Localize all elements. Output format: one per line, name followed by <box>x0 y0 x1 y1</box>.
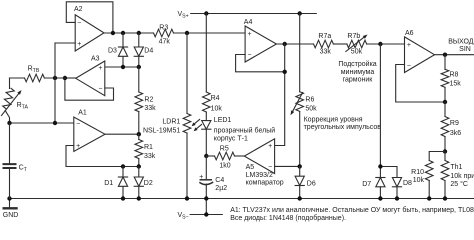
wire A2 + input stub <box>55 42 75 44</box>
wire R9 leads <box>444 102 446 152</box>
svg-text:ВЫХОД: ВЫХОД <box>448 38 474 45</box>
svg-text:47k: 47k <box>159 39 171 46</box>
svg-text:+: + <box>76 143 80 150</box>
svg-text:−: − <box>248 52 252 59</box>
svg-text:50k: 50k <box>305 105 317 112</box>
resistor R9 <box>441 117 449 137</box>
node A4 feedback junction <box>283 70 287 74</box>
svg-text:D1: D1 <box>104 180 113 187</box>
svg-text:R1: R1 <box>144 144 153 151</box>
arrow R6 wiper <box>293 93 303 112</box>
resistor R7a <box>314 40 334 48</box>
svg-text:RTA: RTA <box>17 102 29 111</box>
svg-text:25 °C: 25 °C <box>450 180 468 188</box>
wire R8 leads <box>444 55 446 102</box>
node D7/D8 top junction <box>378 164 382 168</box>
node D3 bottom / A3 + <box>121 65 125 69</box>
svg-text:50k: 50k <box>351 48 363 55</box>
wire R5 to A5 output <box>235 155 245 157</box>
node A2 output / feedback <box>111 31 115 35</box>
svg-text:3k6: 3k6 <box>450 130 461 137</box>
arrow R7b wiper <box>346 37 364 51</box>
svg-text:R3: R3 <box>159 25 168 32</box>
svg-text:−: − <box>98 86 102 93</box>
wire R5 left stub <box>206 155 214 157</box>
svg-text:+: + <box>199 174 203 181</box>
svg-text:A4: A4 <box>244 19 253 26</box>
potentiometer RTA <box>2 87 14 109</box>
svg-text:A6: A6 <box>405 30 414 37</box>
wire D2 leads <box>138 167 140 199</box>
svg-text:LED1: LED1 <box>214 117 232 124</box>
svg-text:Th1: Th1 <box>450 164 462 171</box>
wire A3 feedback loop <box>65 78 114 100</box>
svg-text:D4: D4 <box>144 48 153 55</box>
diode D6 <box>295 176 304 185</box>
svg-text:10k: 10k <box>413 177 425 184</box>
node A4 output <box>283 42 287 46</box>
node R3/LDR1 junction <box>185 31 189 35</box>
wire vertical A2+ to A1- <box>54 43 56 123</box>
node D6 bottom rail <box>298 196 302 200</box>
svg-text:D2: D2 <box>144 180 153 187</box>
svg-text:1k0: 1k0 <box>219 163 230 170</box>
svg-text:A3: A3 <box>91 56 100 63</box>
potentiometer R6 <box>296 92 304 112</box>
wire A4 output <box>276 43 313 45</box>
svg-text:D7: D7 <box>362 181 371 188</box>
node C4 bottom rail <box>204 196 208 200</box>
svg-text:компаратор: компаратор <box>246 180 284 187</box>
wire R7b to A6 + <box>367 43 405 45</box>
arrow LDR1 light ray 2 <box>197 124 202 128</box>
wire V_S- stub <box>190 199 222 215</box>
wire A3 output to RTB line <box>65 77 76 79</box>
svg-text:R5: R5 <box>220 146 229 153</box>
node D1 top <box>121 164 125 168</box>
svg-text:2µ2: 2µ2 <box>215 185 227 192</box>
arrow RTA wiper <box>2 94 19 116</box>
svg-text:R7a: R7a <box>318 33 331 40</box>
svg-text:A1: A1 <box>78 110 87 117</box>
svg-text:R9: R9 <box>450 120 459 127</box>
potentiometer R7b <box>347 40 367 48</box>
wire LDR1 leads <box>186 33 188 199</box>
photoresistor LDR1 <box>183 114 191 134</box>
wire R4 leads <box>205 14 207 121</box>
svg-text:15k: 15k <box>450 80 462 87</box>
svg-text:минимума: минимума <box>341 69 375 76</box>
wire R2 leads <box>138 67 140 134</box>
svg-text:+: + <box>407 42 411 49</box>
svg-text:−: − <box>77 20 81 27</box>
node A1- / vertical junction <box>53 121 57 125</box>
node rail/GND/CT junction <box>7 196 11 200</box>
svg-text:NSL-19M51: NSL-19M51 <box>143 127 180 134</box>
node R8 / R9 / A6 feedback <box>443 100 447 104</box>
diode D8 <box>392 178 401 187</box>
node R7b output / D7 branch <box>378 42 382 46</box>
diode D4 <box>134 47 143 56</box>
node D8 bottom rail <box>395 196 399 200</box>
node Th1 bottom rail <box>443 196 447 200</box>
svg-text:VS−: VS− <box>178 212 189 221</box>
svg-text:D3: D3 <box>108 48 117 55</box>
svg-text:корпус Т-1: корпус Т-1 <box>214 136 248 143</box>
wire LED1 lead <box>205 129 207 156</box>
svg-text:+: + <box>268 143 272 150</box>
node D3 top <box>121 31 125 35</box>
wire D1 leads <box>122 167 124 199</box>
diode D2 <box>134 177 143 186</box>
svg-text:LM393/2: LM393/2 <box>246 172 273 179</box>
svg-text:R2: R2 <box>144 96 153 103</box>
svg-text:C4: C4 <box>215 177 224 184</box>
diode D7 <box>376 177 385 179</box>
node V_S+ / R4 branch <box>204 11 208 15</box>
node D2 / R1 bottom <box>137 164 141 168</box>
ground <box>4 207 17 209</box>
wire RTA leads <box>5 78 9 123</box>
svg-text:+: + <box>77 41 81 48</box>
svg-text:A1: TLV237x или аналогичные. О: A1: TLV237x или аналогичные. Остальные О… <box>230 206 474 214</box>
svg-text:R6: R6 <box>305 96 314 103</box>
node D4 bottom / R2 top <box>137 65 141 69</box>
wire R3 to A4 + <box>174 32 246 34</box>
svg-text:33k: 33k <box>144 105 156 112</box>
wire A1 + feedback to D1/D2 line <box>66 146 139 167</box>
svg-text:гармоник: гармоник <box>343 77 374 84</box>
arrow LDR1 light ray 1 <box>195 119 200 123</box>
resistor R1 <box>135 140 143 159</box>
wire A6 output <box>435 54 474 56</box>
wire D7/D8 bottoms <box>380 187 397 199</box>
svg-text:+: + <box>98 65 102 72</box>
wire C4 leads <box>205 156 207 199</box>
node A5 - / R6 / D6 <box>298 164 302 168</box>
node A3 output <box>63 76 67 80</box>
resistor R2 <box>135 92 143 112</box>
svg-text:10k: 10k <box>211 106 223 113</box>
wire RTB line <box>10 77 65 79</box>
svg-text:Подстройка: Подстройка <box>338 60 376 68</box>
node R9 bottom / R10 / Th1 <box>443 149 447 153</box>
node D4 top <box>137 31 141 35</box>
resistor R10 <box>425 161 433 181</box>
svg-text:R4: R4 <box>211 95 220 102</box>
wire A2 output to R3 <box>104 32 154 34</box>
svg-text:RTB: RTB <box>28 66 40 75</box>
diode D3 <box>118 46 127 48</box>
op-amp A2 <box>75 15 104 51</box>
wire A1 - input line <box>10 122 74 124</box>
resistor RTB <box>25 74 45 82</box>
capacitor CT <box>4 164 16 168</box>
net V_S- rail (bottom) <box>10 198 474 200</box>
wire R1 leads <box>138 134 140 166</box>
svg-text:D6: D6 <box>307 181 316 188</box>
wire D3/D4 bottoms to A3 + (node) <box>105 66 139 68</box>
svg-text:CT: CT <box>19 164 28 173</box>
svg-text:10k при: 10k при <box>450 173 474 180</box>
node LDR1 bottom rail <box>185 196 189 200</box>
svg-text:R7b: R7b <box>347 33 360 40</box>
wire R7a to R7b <box>333 43 347 45</box>
diode D1 <box>118 176 127 178</box>
node LED1 / R5 / C4 <box>204 154 208 158</box>
net V_S+ rail <box>191 13 317 15</box>
svg-text:−: − <box>407 62 411 69</box>
svg-text:+: + <box>248 31 252 38</box>
thermistor Th1 <box>441 161 449 181</box>
svg-text:R10: R10 <box>411 169 424 176</box>
wire A2 feedback loop <box>66 2 113 33</box>
wire GND stub <box>9 199 11 208</box>
node D7 bottom rail <box>378 196 382 200</box>
svg-text:SIN: SIN <box>459 46 471 53</box>
node V_S- stub junction <box>204 212 208 216</box>
svg-text:VS+: VS+ <box>178 11 189 20</box>
svg-text:R8: R8 <box>450 71 459 78</box>
svg-text:LDR1: LDR1 <box>162 118 180 125</box>
wire R6 leads <box>299 14 301 167</box>
capacitor C4 polarized <box>200 179 211 181</box>
resistor R5 <box>215 152 235 160</box>
svg-text:−: − <box>76 121 80 128</box>
svg-text:D8: D8 <box>403 180 412 187</box>
svg-text:Все диоды: 1N4148 (подобранные: Все диоды: 1N4148 (подобранные). <box>230 214 346 222</box>
svg-text:треугольных импульсов: треугольных импульсов <box>304 124 382 131</box>
node D1 bottom rail <box>121 196 125 200</box>
node V_S+ / R6 branch <box>298 11 302 15</box>
op-amp A4 <box>245 26 276 62</box>
wire R7b node down to D7/D8 <box>380 44 397 178</box>
op-amp A6 <box>405 37 435 73</box>
svg-text:прозрачный белый: прозрачный белый <box>214 127 275 135</box>
svg-text:33k: 33k <box>144 153 156 160</box>
op-amp A5 <box>244 139 274 174</box>
wire A4 out down to A5 + <box>275 44 285 146</box>
svg-text:A5: A5 <box>246 164 255 171</box>
resistor R3 <box>154 29 174 37</box>
led LED1 <box>202 121 211 130</box>
node A1 output / R1 R2 junction <box>137 132 141 136</box>
svg-text:GND: GND <box>3 212 19 219</box>
svg-text:A2: A2 <box>74 6 83 13</box>
wire R10 branch <box>429 152 445 199</box>
wire D4 leads <box>138 33 140 67</box>
svg-text:−: − <box>268 164 272 171</box>
resistor R8 <box>441 69 449 87</box>
op-amp A1 <box>74 117 105 152</box>
svg-text:33k: 33k <box>320 48 332 55</box>
wire CT leads <box>9 123 11 199</box>
node R10 bottom rail <box>427 196 431 200</box>
wire A6 feedback loop <box>396 65 445 103</box>
resistor R4 <box>203 92 211 112</box>
node RTB / A2+ vertical <box>53 76 57 80</box>
node D2 bottom rail <box>137 196 141 200</box>
wire A5 - input <box>275 165 300 167</box>
node A6 output <box>443 53 447 57</box>
wire A1 output <box>105 133 139 135</box>
op-amp A3 <box>76 61 105 96</box>
wire D6 leads <box>299 166 301 198</box>
node CT / RTA / A1- junction <box>7 121 11 125</box>
wire Th1 leads <box>444 152 446 199</box>
wire A4 feedback loop <box>236 55 285 72</box>
svg-text:Коррекция уровня: Коррекция уровня <box>304 116 363 123</box>
wire D3 leads <box>122 33 124 67</box>
